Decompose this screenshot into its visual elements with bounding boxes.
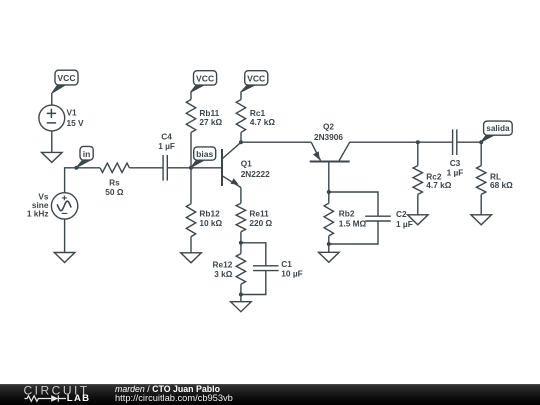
wire Rb12 to ground bbox=[190, 237, 192, 253]
wire Rc1 to collector node bbox=[240, 132, 242, 142]
wire Q1 collector to Q2 emitter bbox=[241, 141, 311, 143]
resistor Rb11 bbox=[186, 100, 195, 133]
svg-text:V1: V1 bbox=[67, 108, 78, 118]
wire Q2 base to Rb2 bbox=[328, 192, 330, 203]
svg-text:http://circuitlab.com/cb953vb: http://circuitlab.com/cb953vb bbox=[115, 393, 233, 403]
wire salida to RL bbox=[480, 142, 482, 165]
ground G5 bbox=[319, 252, 340, 262]
svg-text:Q2: Q2 bbox=[323, 122, 334, 132]
node Q2 base junction bbox=[327, 190, 331, 194]
wire node to Rc2 bbox=[417, 142, 419, 165]
node in junction bbox=[74, 166, 78, 170]
wire Vs bottom to ground bbox=[64, 219, 66, 252]
wire V1 bottom to ground bbox=[51, 131, 53, 153]
svg-text:15 V: 15 V bbox=[67, 118, 85, 128]
svg-text:bias: bias bbox=[196, 149, 213, 159]
svg-text:1 µF: 1 µF bbox=[158, 141, 175, 151]
transistor Q1 2N2222 bbox=[222, 142, 241, 187]
ground G3 bbox=[181, 253, 202, 263]
wire Rb2 to ground bbox=[328, 236, 330, 252]
svg-text:in: in bbox=[83, 149, 91, 159]
wire Rb11 to bias bbox=[190, 133, 192, 168]
wire base Q1 bbox=[191, 167, 222, 169]
svg-text:VCC: VCC bbox=[196, 73, 214, 83]
wire VCC to Rc1 bbox=[240, 92, 242, 100]
resistor Rc2 bbox=[413, 166, 422, 195]
source Vs (sine) bbox=[51, 193, 77, 219]
svg-text:68 kΩ: 68 kΩ bbox=[490, 180, 513, 190]
wire Re11 to Re12 bbox=[240, 232, 242, 254]
svg-text:VCC: VCC bbox=[247, 73, 265, 83]
node bias junction bbox=[189, 166, 193, 170]
svg-text:C3: C3 bbox=[450, 158, 461, 168]
wire Rs to C4 bbox=[129, 167, 163, 169]
capacitor C1 bbox=[253, 266, 279, 271]
capacitor C4 bbox=[163, 155, 167, 181]
svg-text:220 Ω: 220 Ω bbox=[249, 218, 272, 228]
svg-text:salida: salida bbox=[486, 124, 510, 133]
resistor Re11 bbox=[236, 203, 245, 232]
wire Re12 to ground bbox=[240, 284, 242, 302]
wire in node to Vs bbox=[65, 168, 100, 193]
ground G1 bbox=[42, 152, 63, 162]
svg-text:1 µF: 1 µF bbox=[396, 219, 413, 229]
capacitor C3 bbox=[453, 129, 457, 155]
svg-text:4.7 kΩ: 4.7 kΩ bbox=[250, 117, 275, 127]
svg-text:2N3906: 2N3906 bbox=[314, 132, 343, 142]
wire C4 to bias node bbox=[167, 167, 191, 169]
svg-text:VCC: VCC bbox=[57, 73, 75, 83]
svg-text:50 Ω: 50 Ω bbox=[105, 187, 124, 197]
ground G2 bbox=[54, 253, 75, 263]
node Re11/C1 junction bbox=[239, 241, 243, 245]
node Rc2 junction bbox=[416, 140, 420, 144]
node salida junction bbox=[479, 140, 483, 144]
voltage source V1 bbox=[39, 105, 65, 131]
resistor Rs bbox=[100, 163, 129, 172]
net flag VCC (V1) bbox=[52, 70, 78, 93]
resistor Rb2 bbox=[324, 203, 333, 236]
svg-text:1.5 MΩ: 1.5 MΩ bbox=[339, 219, 367, 229]
wire RL to ground bbox=[480, 194, 482, 214]
resistor Rc1 bbox=[236, 100, 245, 133]
net flag in bbox=[76, 146, 93, 167]
wire VCC to Rb11 bbox=[190, 92, 192, 100]
transistor Q2 2N3906 bbox=[310, 142, 350, 192]
svg-text:Rs: Rs bbox=[109, 177, 120, 187]
svg-text:2N2222: 2N2222 bbox=[241, 169, 270, 179]
node Q1 collector junction bbox=[239, 140, 243, 144]
svg-text:3 kΩ: 3 kΩ bbox=[214, 269, 233, 279]
wire C3 to salida bbox=[457, 141, 481, 143]
net flag VCC (Rc1) bbox=[241, 71, 268, 93]
svg-text:10 µF: 10 µF bbox=[281, 269, 302, 279]
node Rb2/C2 junction bbox=[327, 242, 331, 246]
logo resistor-diode glyph bbox=[25, 395, 67, 401]
svg-text:10 kΩ: 10 kΩ bbox=[199, 218, 222, 228]
ground G4 bbox=[231, 302, 252, 312]
capacitor C2 bbox=[365, 216, 391, 221]
ground G7 bbox=[471, 215, 492, 225]
net flag salida bbox=[481, 121, 512, 142]
wire C1 top branch bbox=[241, 243, 266, 266]
resistor Rb12 bbox=[186, 204, 195, 237]
svg-text:4.7 kΩ: 4.7 kΩ bbox=[426, 180, 451, 190]
footer bar bbox=[0, 384, 540, 405]
svg-text:LAB: LAB bbox=[67, 393, 91, 404]
wire C2 bottom branch bbox=[329, 221, 378, 244]
wire Rc2 to ground bbox=[417, 194, 419, 214]
node Re12/C1 junction bbox=[239, 293, 243, 297]
svg-text:1 kHz: 1 kHz bbox=[27, 209, 49, 219]
svg-text:Rb2: Rb2 bbox=[339, 209, 355, 219]
wire C2 top branch bbox=[329, 192, 378, 217]
svg-text:1 µF: 1 µF bbox=[447, 167, 464, 177]
ground G6 bbox=[408, 215, 429, 225]
wire Q2 collector to C3 bbox=[350, 141, 453, 143]
svg-text:27 kΩ: 27 kΩ bbox=[199, 117, 222, 127]
resistor RL bbox=[477, 166, 486, 195]
svg-text:C2: C2 bbox=[396, 209, 407, 219]
wire Q1 emitter to Re11 bbox=[240, 188, 242, 204]
resistor Re12 bbox=[236, 254, 245, 285]
wire V1 top to VCC flag bbox=[51, 93, 53, 105]
wire C1 bottom branch bbox=[241, 270, 266, 294]
net flag bias bbox=[191, 147, 216, 168]
svg-text:Q1: Q1 bbox=[241, 159, 252, 169]
wire bias to Rb12 bbox=[190, 168, 192, 204]
net flag VCC (Rb11) bbox=[191, 71, 217, 93]
